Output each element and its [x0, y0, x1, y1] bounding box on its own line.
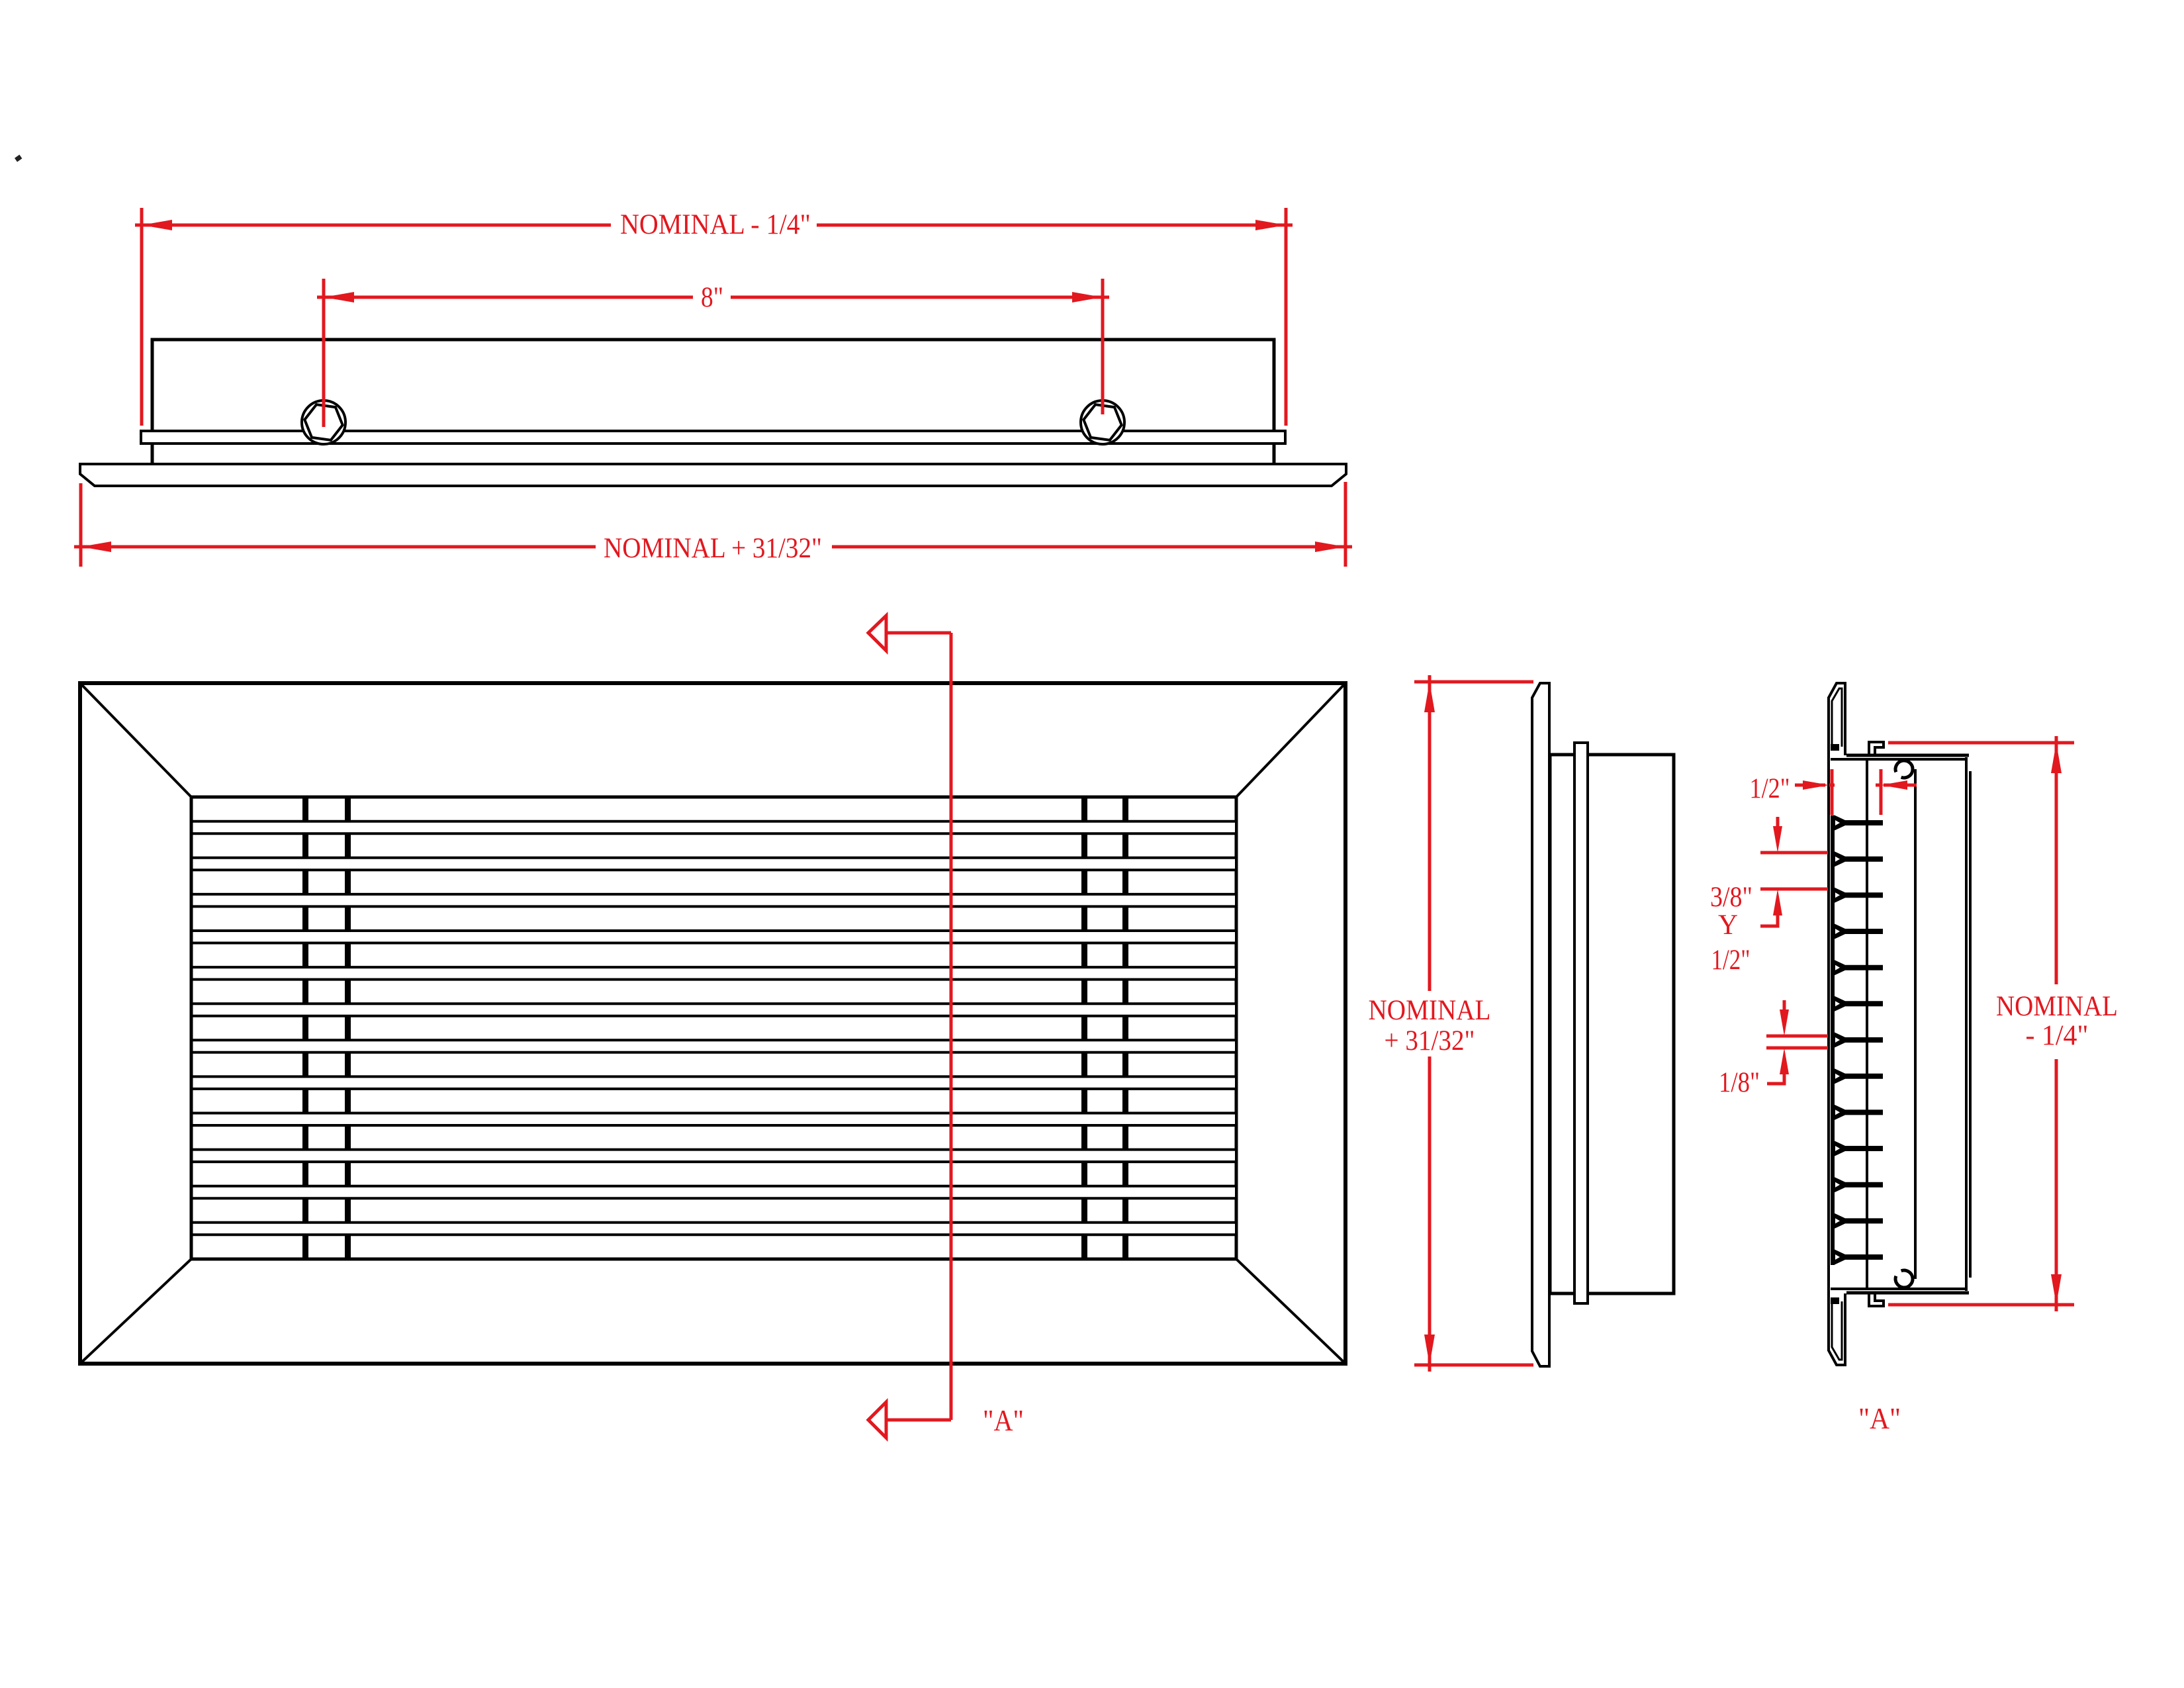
frame bevel diagonal top-right — [1236, 683, 1345, 797]
svg-text:NOMINAL: NOMINAL — [1996, 991, 2118, 1022]
section A: louver face bar — [1831, 816, 1835, 1265]
dimension 1/8" blade thickness : upper line — [1766, 1035, 1828, 1038]
svg-text:1/8": 1/8" — [1719, 1067, 1760, 1098]
svg-text:8": 8" — [701, 282, 723, 313]
svg-text:1/2": 1/2" — [1711, 945, 1751, 976]
svg-text:"A": "A" — [1858, 1401, 1901, 1435]
section A: screw boss curl bottom — [1895, 1270, 1913, 1288]
arrowhead left — [142, 220, 172, 230]
dimension 3/8" : leader tail — [1760, 915, 1778, 926]
section A: channel bottom wall — [1831, 1288, 1966, 1290]
svg-text:NOMINAL + 31/32": NOMINAL + 31/32" — [604, 533, 822, 564]
front view inner frame (opening) — [191, 797, 1236, 1259]
frame bevel diagonal top-left — [80, 683, 191, 797]
svg-text:NOMINAL: NOMINAL — [1369, 995, 1491, 1026]
section A: inner wall — [1914, 769, 1917, 1279]
arrowhead up — [1424, 682, 1435, 712]
section A: mounting tab bottom — [1869, 1293, 1884, 1306]
svg-text:3/8": 3/8" — [1710, 882, 1752, 913]
dimension 1/8" : lower line — [1766, 1047, 1828, 1050]
arrowhead down — [2051, 1274, 2062, 1305]
dimension 3/8" : lower line — [1760, 888, 1828, 891]
arrowhead right — [1315, 541, 1345, 552]
louver edge lines — [191, 820, 1236, 823]
stray ink speck — [15, 155, 22, 162]
dimension NOMINAL - 1/4 inch : extension line right — [1285, 208, 1288, 426]
louver support braces (vertical rods) — [302, 798, 308, 1258]
svg-text:NOMINAL - 1/4": NOMINAL - 1/4" — [620, 209, 811, 240]
svg-text:- 1/4": - 1/4" — [2026, 1020, 2089, 1051]
dimension NOMINAL + 31/32 inch : dimension line — [81, 545, 596, 549]
front view outer frame — [80, 683, 1345, 1364]
dimension NOMINAL - 1/4 inch : extension line left — [140, 208, 144, 426]
dimension 8 inch : extension line left (screw centerline) — [322, 279, 326, 427]
side view flange plate — [1532, 683, 1549, 1366]
dimension 1/2" : extension line right — [1880, 769, 1883, 815]
dimension NOMINAL + 31/32 inch (side) : bottom tick — [1414, 1364, 1533, 1367]
svg-text:+ 31/32": + 31/32" — [1385, 1025, 1475, 1056]
top view retaining bar — [141, 431, 1285, 444]
top view flange plate — [80, 464, 1346, 486]
svg-text:"A": "A" — [983, 1403, 1024, 1437]
frame bevel diagonal bottom-left — [80, 1259, 191, 1364]
dimension NOMINAL - 1/4" (section) : top tick — [1888, 741, 2074, 745]
louver gap masks — [193, 821, 1235, 834]
section A: bottom flange plate — [1829, 1293, 1845, 1365]
section arrow bottom (open) — [868, 1402, 886, 1438]
dimension 1/2" : right leader — [1881, 780, 1907, 790]
svg-text:1/2": 1/2" — [1750, 773, 1790, 804]
arrowhead right — [1072, 292, 1103, 303]
section line A-A vertical — [950, 633, 953, 1420]
section line A-A top leg — [886, 632, 951, 635]
section A: screw boss curl top — [1895, 761, 1913, 778]
section A: louver blades — [1831, 816, 1883, 831]
section line A-A bottom leg — [886, 1419, 951, 1422]
dimension NOMINAL - 1/4 inch : dimension line — [142, 224, 611, 227]
dimension 8 inch : dimension line — [324, 296, 693, 299]
dimension NOMINAL + 31/32 inch : extension line left — [79, 483, 83, 567]
svg-text:Y: Y — [1718, 910, 1738, 941]
dimension 8 inch : extension line right (screw centerline) — [1101, 279, 1105, 414]
section A: top flange plate — [1829, 683, 1845, 755]
dimension 1/2" : left leader — [1795, 784, 1825, 787]
dimension 1/8" : leader tail — [1767, 1074, 1784, 1084]
dimension NOMINAL - 1/4" (section) : bottom tick — [1888, 1303, 2074, 1307]
section A: grille face line — [1827, 697, 1830, 1351]
arrowhead right — [1255, 220, 1286, 230]
side view gasket bar — [1574, 743, 1588, 1303]
section A: right wall outer — [1965, 757, 1968, 1291]
frame bevel diagonal bottom-right — [1236, 1259, 1345, 1364]
dimension NOMINAL + 31/32 inch (side) : dimension line — [1428, 682, 1432, 991]
dimension NOMINAL + 31/32 inch : extension line right — [1344, 482, 1347, 567]
arrowhead down — [1424, 1335, 1435, 1365]
arrowhead up — [2051, 743, 2062, 773]
section A: mounting tab top — [1869, 742, 1884, 755]
section arrow top (open) — [868, 616, 886, 651]
dimension 1/2" : extension line left — [1831, 769, 1834, 815]
side view body — [1550, 755, 1674, 1293]
dimension NOMINAL + 31/32 inch (side) : top tick — [1414, 680, 1533, 684]
arrowhead left — [81, 541, 111, 552]
arrowhead left — [324, 292, 354, 303]
section A: channel top wall — [1846, 754, 1969, 757]
section A: channel left wall — [1866, 759, 1868, 1289]
hex head screw left — [302, 400, 345, 444]
hex head screw right — [1081, 400, 1124, 444]
dimension NOMINAL - 1/4" (section) : dimension line — [2055, 743, 2058, 984]
dimension 3/8" louver pitch : upper line — [1760, 851, 1828, 855]
top profile view: duct collar body — [152, 340, 1274, 464]
